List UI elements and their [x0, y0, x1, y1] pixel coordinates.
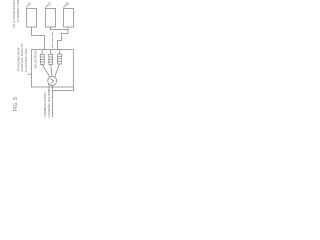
big box switching network N1	[32, 50, 74, 88]
svg-text:FIG. 5: FIG. 5	[13, 97, 19, 111]
node label TO/FROM CHANNEL UNITS (rotated, top-left)	[12, 0, 20, 28]
contact bank B1	[40, 50, 44, 64]
box U2 channel unit 2	[46, 9, 56, 28]
wiper line from B1	[42, 65, 50, 78]
node label COMMON CONTROL (rotated, left of N1)	[17, 43, 28, 72]
branch wire to N1 corner	[53, 87, 74, 91]
svg-text:SELECTORS: SELECTORS	[33, 50, 37, 69]
label SELECTOR inside N1 (rotated)	[33, 50, 37, 69]
wire from U1 to network	[32, 27, 45, 50]
leader line U1	[26, 5, 28, 8]
contact bank B3	[57, 50, 61, 64]
node label COMMON TRANSMITTING MEDIUM (rotated, bottom)	[43, 83, 51, 117]
leader line U3	[64, 5, 67, 8]
wire from U2	[51, 27, 69, 30]
wire from U3 staircase	[58, 27, 69, 50]
box U3 channel unit 3	[64, 9, 74, 28]
wiper line from B3	[55, 64, 60, 77]
dashed linkage line	[52, 32, 54, 50]
figure label FIG. 5 (rotated)	[13, 97, 19, 111]
svg-text:CHANNEL EQUIPMENT: CHANNEL EQUIPMENT	[47, 83, 51, 117]
leader line U2	[46, 5, 49, 8]
contact bank B2	[49, 50, 53, 64]
wiper line from B2	[51, 65, 52, 77]
leader to N1	[28, 73, 32, 75]
output wire down from S1	[52, 85, 54, 117]
wiper arrow inside S1	[51, 79, 54, 83]
svg-text:ALLOTTER UNIT: ALLOTTER UNIT	[24, 48, 28, 72]
label 14 for U2	[47, 2, 51, 6]
label 12 for U1	[28, 2, 32, 6]
svg-text:CHANNEL UNITS: CHANNEL UNITS	[16, 0, 20, 22]
label 16 for U3	[65, 2, 69, 6]
selector wiper circle S1	[48, 76, 57, 85]
box U1 channel unit 1	[27, 9, 37, 28]
